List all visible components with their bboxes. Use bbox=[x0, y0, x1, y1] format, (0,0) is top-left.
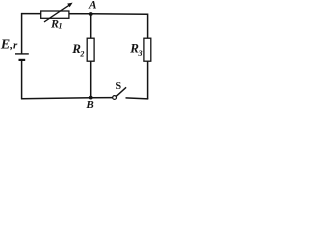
svg-text:E,r: E,r bbox=[0, 38, 18, 53]
svg-text:S: S bbox=[116, 81, 122, 92]
battery E,r short plate bbox=[19, 59, 26, 61]
svg-text:R3: R3 bbox=[129, 41, 142, 58]
resistor R2 body bbox=[87, 38, 94, 61]
wire bottom right (switch to right corner) bbox=[126, 98, 149, 99]
resistor R1 body bbox=[41, 11, 69, 18]
battery E,r long plate bbox=[15, 53, 29, 55]
resistor R3 body bbox=[144, 38, 151, 61]
wire left lower (battery down to bottom corner) bbox=[21, 60, 23, 99]
svg-text:B: B bbox=[85, 99, 93, 111]
switch S pivot circle bbox=[113, 96, 117, 100]
wire left upper (corner down to battery) bbox=[21, 13, 23, 54]
wire middle branch (node A down to node B) bbox=[90, 14, 92, 98]
wire bottom left (corner to switch) bbox=[21, 98, 113, 99]
switch S blade bbox=[116, 87, 126, 96]
resistor R1 arrow bbox=[44, 5, 69, 22]
wire right (top corner down to bottom corner) bbox=[147, 14, 149, 100]
node A junction dot bbox=[89, 12, 93, 16]
node B junction dot bbox=[89, 96, 93, 100]
svg-text:A: A bbox=[88, 0, 97, 12]
svg-text:R2: R2 bbox=[71, 41, 84, 58]
wire top (left corner to node A to right corner) bbox=[22, 13, 148, 16]
